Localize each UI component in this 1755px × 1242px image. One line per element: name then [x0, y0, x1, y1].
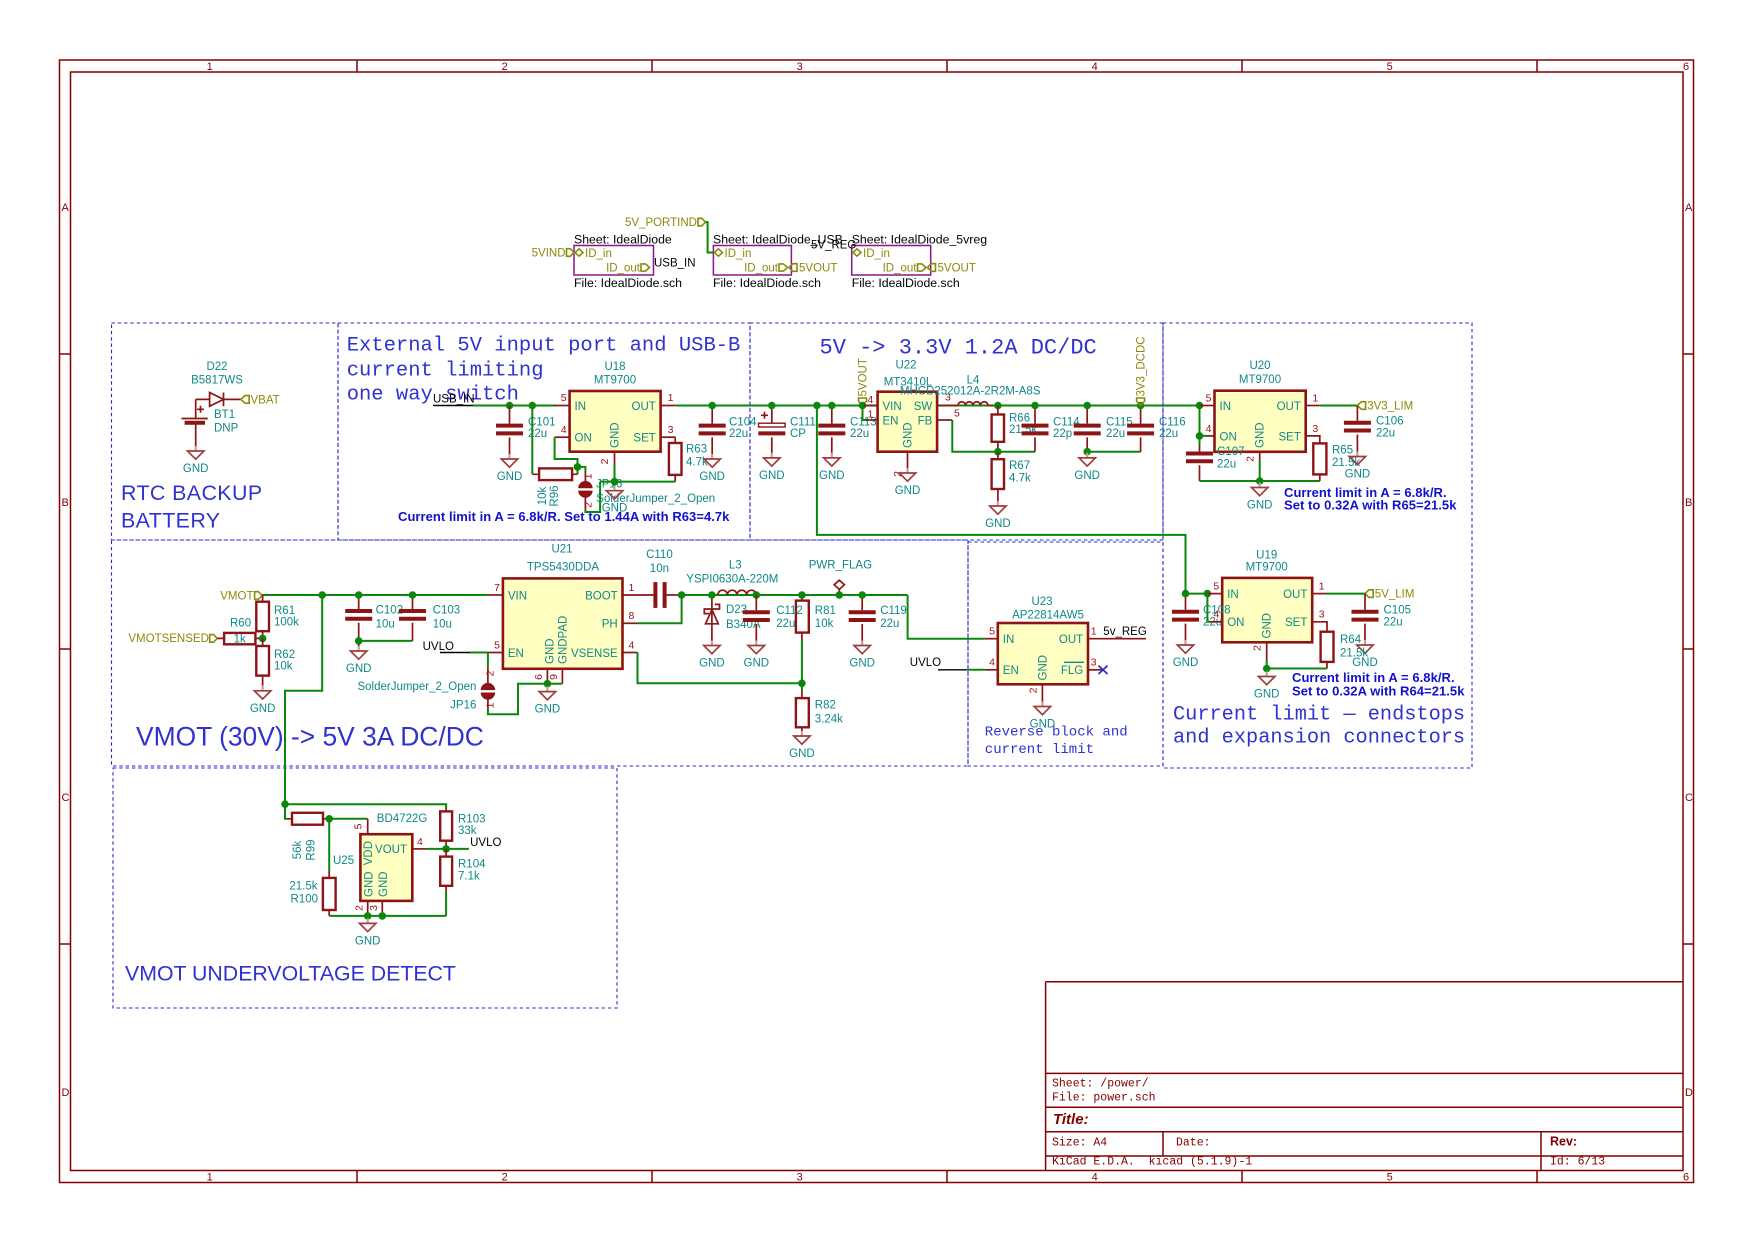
pin 6 GND (U21) [546, 669, 548, 684]
hier label 5VOUT (5vreg sheet) [928, 264, 936, 272]
svg-text:R96: R96 [549, 485, 561, 506]
svg-text:R61: R61 [274, 605, 295, 617]
resistor R81 [796, 601, 809, 633]
svg-text:BATTERY: BATTERY [121, 509, 220, 533]
svg-text:2: 2 [502, 1171, 508, 1183]
svg-text:D: D [1685, 1087, 1693, 1099]
svg-text:5: 5 [494, 639, 500, 651]
junction (U20 IN) [1196, 402, 1204, 410]
junction (VMOT to undervoltage) [318, 591, 326, 599]
svg-text:10u: 10u [433, 619, 452, 631]
svg-text:ID_in: ID_in [585, 248, 612, 260]
svg-text:VMOT: VMOT [220, 591, 253, 603]
wire junction to JP pin1 [578, 467, 586, 472]
svg-text:1: 1 [1091, 626, 1097, 638]
hier label 5VOUT vertical [859, 398, 867, 405]
pin 2 GND (U23) [1041, 684, 1043, 701]
svg-text:6: 6 [1683, 61, 1689, 73]
ground (C102) [346, 646, 372, 675]
IC U21 TPS5430DDA [503, 578, 623, 668]
svg-text:10u: 10u [376, 619, 395, 631]
svg-text:External 5V input port and USB: External 5V input port and USB-B [347, 334, 741, 357]
svg-text:DNP: DNP [214, 423, 239, 435]
svg-text:5VOUT: 5VOUT [857, 358, 869, 396]
pin 3 SET (U20) [1306, 436, 1320, 444]
frame column ticks bottom [357, 1171, 1537, 1183]
IC U22 MT3410L [878, 392, 938, 452]
junction (C116 top) [1137, 402, 1145, 410]
junction (C101) [506, 402, 514, 410]
svg-text:current limiting: current limiting [347, 360, 544, 383]
junction (U20 gnd) [1256, 477, 1264, 485]
svg-text:BOOT: BOOT [585, 590, 618, 602]
frame row ticks right [1683, 354, 1694, 944]
resistor R64 [1321, 632, 1334, 662]
title block lines [1046, 982, 1683, 1171]
wire VMOT rail [262, 594, 488, 596]
wire U25 gnd bus [329, 916, 446, 919]
svg-text:A: A [62, 202, 70, 214]
resistor R100 [323, 878, 336, 910]
svg-text:22u: 22u [1106, 428, 1125, 440]
svg-text:B: B [1685, 497, 1692, 509]
svg-text:4: 4 [561, 424, 567, 436]
capacitor C119 [861, 595, 863, 641]
sheet pin ID_in (IdealDiode_5vreg) [853, 249, 861, 256]
svg-text:Sheet: IdealDiode_5vreg: Sheet: IdealDiode_5vreg [852, 233, 988, 247]
svg-text:Set to 0.32A with R65=21.5k: Set to 0.32A with R65=21.5k [1284, 497, 1457, 512]
wire C103 to C102 gnd [359, 640, 413, 642]
pin 3 SET (U19) [1312, 622, 1327, 632]
svg-text:U19: U19 [1256, 550, 1277, 562]
svg-text:22u: 22u [1384, 617, 1403, 629]
svg-text:Date:: Date: [1176, 1136, 1211, 1149]
svg-text:USB_IN: USB_IN [433, 394, 475, 406]
svg-text:7.1k: 7.1k [458, 870, 480, 882]
wire R99 to R100 [328, 819, 330, 872]
svg-text:7: 7 [494, 582, 500, 594]
svg-text:D22: D22 [206, 361, 227, 373]
svg-text:SolderJumper_2_Open: SolderJumper_2_Open [357, 681, 476, 693]
svg-text:5: 5 [1213, 581, 1219, 593]
wire JP pin2 to gnd bus [585, 482, 600, 512]
svg-text:5: 5 [989, 626, 995, 638]
svg-text:R103: R103 [458, 813, 486, 825]
wire USB_IN rail [473, 405, 556, 407]
svg-text:U20: U20 [1249, 360, 1270, 372]
sheet IdealDiode_5vreg [852, 246, 931, 276]
svg-text:R65: R65 [1332, 445, 1353, 457]
svg-text:USB_IN: USB_IN [654, 258, 696, 270]
svg-text:U21: U21 [551, 543, 572, 555]
junction (C108 top) [1182, 590, 1190, 598]
pin 4 ON (U19) [1207, 594, 1210, 622]
svg-text:R81: R81 [815, 605, 836, 617]
note box VMOT DCDC [112, 540, 969, 766]
junction (R96 branch) [529, 402, 537, 410]
capacitor C101 [509, 406, 511, 455]
wire U20 gnd bus [1200, 460, 1320, 481]
pin 9 GNDPAD (U21) [561, 669, 563, 684]
svg-text:R64: R64 [1340, 634, 1362, 646]
junction (D23) [708, 591, 716, 599]
capacitor C107 [1199, 436, 1201, 446]
hier label VBAT [241, 396, 249, 404]
ground (C105) [1352, 640, 1378, 669]
ground (C115) [1074, 453, 1100, 482]
pin 1 BOOT (U21) [623, 594, 654, 596]
no connect X (U23 FLG) [1099, 666, 1108, 674]
svg-text:and expansion connectors: and expansion connectors [1173, 726, 1465, 749]
junction (C119 top) [858, 591, 866, 599]
svg-text:Sheet: /power/: Sheet: /power/ [1052, 1078, 1149, 1091]
svg-text:JP16: JP16 [450, 699, 476, 711]
resistor R96 [539, 468, 572, 480]
svg-text:EN: EN [1003, 665, 1019, 677]
svg-text:ID_in: ID_in [863, 248, 890, 260]
svg-text:22u: 22u [1217, 459, 1236, 471]
svg-text:22u: 22u [850, 428, 869, 440]
svg-text:1: 1 [207, 1171, 213, 1183]
svg-text:8: 8 [629, 610, 635, 622]
pin 2 GND (U19) [1266, 642, 1268, 660]
svg-text:10n: 10n [650, 563, 669, 575]
resistor R62 [256, 646, 269, 676]
pin 1 OUT (U18) [661, 405, 676, 407]
ground (R82) [789, 731, 815, 760]
svg-text:FB: FB [918, 415, 933, 427]
svg-text:5VIND: 5VIND [532, 248, 566, 260]
diode D23 [711, 595, 713, 641]
resistor R63 [669, 443, 682, 475]
svg-text:ON: ON [1227, 617, 1244, 629]
svg-text:CP: CP [790, 428, 806, 440]
svg-text:OUT: OUT [1283, 589, 1307, 601]
resistor R60 [224, 633, 255, 644]
note box reverse block [968, 542, 1163, 766]
svg-text:ID_out: ID_out [606, 263, 641, 275]
ground (U21) [546, 684, 548, 687]
svg-text:R63: R63 [686, 443, 707, 455]
svg-text:2: 2 [1028, 687, 1040, 693]
svg-text:File: IdealDiode.sch: File: IdealDiode.sch [852, 276, 960, 290]
svg-text:C112: C112 [776, 605, 803, 617]
svg-text:3: 3 [797, 61, 803, 73]
svg-text:GND: GND [1038, 655, 1050, 681]
svg-text:4: 4 [629, 639, 635, 651]
junction (C103 top) [409, 591, 417, 599]
wire to R103 [285, 804, 446, 808]
pin 5 IN (U23) [985, 638, 998, 640]
svg-text:YSPI0630A-220M: YSPI0630A-220M [686, 573, 778, 585]
svg-text:D: D [62, 1087, 70, 1099]
junction (C115 top) [1083, 402, 1091, 410]
junction (U25 pin2 gnd) [364, 912, 372, 920]
svg-text:C105: C105 [1384, 605, 1412, 617]
svg-text:IN: IN [1220, 401, 1232, 413]
svg-text:EN: EN [508, 648, 524, 660]
svg-text:2: 2 [354, 905, 366, 911]
pin 3 GND (U25) [381, 901, 383, 916]
svg-text:C116: C116 [1159, 416, 1186, 428]
svg-text:3V3_DCDC: 3V3_DCDC [1135, 336, 1147, 396]
wire U19 IN [1186, 593, 1208, 595]
hier label 3V3_LIM [1357, 402, 1365, 410]
svg-text:5: 5 [561, 392, 567, 404]
wire UVLO to U23 EN [967, 669, 984, 671]
svg-text:R66: R66 [1009, 413, 1030, 425]
capacitor C116 [1140, 406, 1142, 452]
junction (FB/R66/R67) [994, 448, 1002, 456]
pin 2 GND (U18) [614, 452, 616, 464]
wire EN bridge (U22) [863, 406, 867, 421]
svg-text:IN: IN [575, 401, 587, 413]
svg-text:4: 4 [417, 836, 423, 848]
wire OUT rail to U20 [676, 405, 1200, 407]
svg-text:5VOUT: 5VOUT [799, 263, 837, 275]
junction (U20 ON) [1196, 432, 1204, 440]
svg-text:R99: R99 [306, 839, 318, 860]
svg-text:1k: 1k [234, 633, 246, 645]
svg-text:C111: C111 [790, 416, 816, 428]
svg-text:4: 4 [989, 657, 995, 669]
svg-text:Title:: Title: [1053, 1111, 1089, 1128]
svg-text:U23: U23 [1031, 596, 1052, 608]
svg-text:VOUT: VOUT [375, 844, 407, 856]
junction (U19 IN/ON) [1204, 590, 1212, 598]
junction (C102 top) [355, 591, 363, 599]
svg-text:BD4722G: BD4722G [377, 813, 428, 825]
svg-text:6: 6 [1683, 1171, 1689, 1183]
svg-text:current limit: current limit [985, 742, 1094, 758]
pin 3 SW (U22) [937, 405, 958, 407]
wire U20 OUT [1320, 405, 1358, 407]
junction (U19 gnd) [1263, 665, 1271, 673]
svg-text:Reverse block and: Reverse block and [985, 724, 1128, 740]
wire FB net [952, 420, 1035, 452]
svg-text:R82: R82 [815, 700, 836, 712]
svg-text:Current limit — endstops: Current limit — endstops [1173, 704, 1465, 727]
svg-text:10k: 10k [537, 486, 549, 505]
junction (VSENSE/R81/R82) [798, 680, 806, 688]
svg-text:1: 1 [629, 582, 635, 594]
svg-text:9: 9 [548, 674, 560, 680]
svg-text:4: 4 [1213, 609, 1219, 621]
svg-text:3: 3 [1091, 657, 1097, 669]
pin 2 GND (U20) [1259, 452, 1261, 460]
svg-text:3: 3 [797, 1171, 803, 1183]
svg-text:3: 3 [668, 424, 674, 436]
svg-text:C: C [1685, 792, 1693, 804]
svg-text:ID_in: ID_in [725, 248, 752, 260]
svg-text:BT1: BT1 [214, 409, 235, 421]
resistor R104 [440, 857, 452, 886]
svg-text:21.5k: 21.5k [289, 880, 317, 892]
wire U19 gnd [1267, 660, 1327, 672]
ground (U18 pin2) [602, 486, 628, 515]
svg-text:MT9700: MT9700 [1239, 374, 1281, 386]
svg-text:C107: C107 [1217, 446, 1245, 458]
svg-text:OUT: OUT [1277, 401, 1301, 413]
svg-text:GND: GND [903, 422, 915, 448]
svg-text:5v_REG: 5v_REG [1103, 626, 1147, 638]
sheet IdealDiode_USB [713, 246, 791, 276]
ground (R67) [985, 501, 1011, 530]
svg-text:2: 2 [1245, 456, 1257, 462]
svg-text:5V -> 3.3V 1.2A DC/DC: 5V -> 3.3V 1.2A DC/DC [820, 335, 1097, 360]
svg-text:UVLO: UVLO [423, 641, 454, 653]
svg-text:21.5k: 21.5k [1340, 648, 1368, 660]
svg-text:56k: 56k [292, 840, 304, 859]
svg-text:R104: R104 [458, 859, 486, 871]
junction (5VOUT/EN) [859, 402, 867, 410]
junction (undervoltage entry) [281, 800, 289, 808]
svg-text:MT9700: MT9700 [594, 375, 636, 387]
wire C115/C116 gnd bus [1087, 451, 1140, 453]
svg-text:2: 2 [599, 458, 611, 464]
svg-text:ON: ON [1220, 431, 1237, 443]
wire UVLO to EN [470, 652, 488, 654]
svg-text:4: 4 [1092, 61, 1098, 73]
ground (C108) [1173, 640, 1199, 669]
junction (U18 gnd bus) [611, 478, 619, 486]
capacitor C108 [1185, 594, 1187, 640]
svg-text:Sheet: IdealDiode: Sheet: IdealDiode [574, 233, 672, 247]
junction (C102 bottom) [355, 637, 363, 645]
ground (U23) [1030, 702, 1056, 731]
svg-text:3: 3 [1312, 423, 1318, 435]
junction (C113) [828, 402, 836, 410]
wire VOUT to UVLO [427, 848, 469, 850]
svg-text:MHCD252012A-2R2M-A8S: MHCD252012A-2R2M-A8S [900, 386, 1041, 398]
svg-text:C: C [62, 792, 70, 804]
svg-text:Size: A4: Size: A4 [1052, 1136, 1107, 1149]
svg-text:C119: C119 [880, 605, 907, 617]
svg-text:C106: C106 [1376, 416, 1404, 428]
note box 5V to 3.3V [750, 323, 1163, 540]
svg-text:1: 1 [583, 473, 595, 479]
ground (U20) [1247, 483, 1273, 512]
note box undervoltage [113, 768, 617, 1008]
ground (C104) [699, 454, 725, 483]
svg-text:IN: IN [1003, 634, 1015, 646]
sheet IdealDiode [574, 246, 654, 276]
wire VSENSE net [638, 653, 802, 684]
svg-text:UVLO: UVLO [910, 657, 941, 669]
capacitor C103 [412, 595, 414, 641]
junction (C114 top) [1031, 402, 1039, 410]
junction (C115 bottom) [1083, 448, 1091, 456]
svg-text:VMOTSENSED: VMOTSENSED [128, 633, 209, 645]
svg-text:File: IdealDiode.sch: File: IdealDiode.sch [574, 276, 682, 290]
wire R99 to U25 VDD [329, 818, 368, 820]
svg-text:EN: EN [883, 415, 899, 427]
svg-text:FLG: FLG [1061, 665, 1083, 677]
pin 5 IN (U19) [1207, 593, 1222, 595]
ground (D23) [699, 641, 725, 670]
junction (C111) [768, 402, 776, 410]
pin 1 EN (U22) [867, 419, 878, 421]
capacitor C110 [654, 582, 665, 608]
svg-text:PWR_FLAG: PWR_FLAG [809, 559, 872, 571]
wire PH to BOOT cap [638, 595, 682, 623]
svg-text:22u: 22u [729, 428, 748, 440]
frame row ticks left [60, 354, 71, 944]
hier label 5V_LIM [1365, 590, 1373, 598]
note box current limit right [1163, 323, 1472, 768]
wire R81 to VSENSE net [801, 640, 803, 683]
junction (L3 out / C112) [753, 591, 761, 599]
svg-text:4: 4 [1092, 1171, 1098, 1183]
pin 4 ON (U20) [1200, 406, 1208, 436]
pin 5 FB (U22) [937, 419, 952, 421]
svg-text:Set to 0.32A with R64=21.5k: Set to 0.32A with R64=21.5k [1292, 683, 1465, 698]
capacitor C102 [358, 595, 360, 646]
resistor R67 [992, 459, 1004, 489]
svg-text:GND: GND [1262, 613, 1274, 639]
svg-text:TPS5430DDA: TPS5430DDA [527, 561, 600, 573]
svg-text:VSENSE: VSENSE [571, 648, 618, 660]
resistor R66 [992, 415, 1004, 442]
wire U19 OUT [1326, 593, 1365, 595]
hier label 5VOUT (USB sheet) [789, 264, 797, 272]
svg-text:File: IdealDiode.sch: File: IdealDiode.sch [713, 276, 821, 290]
svg-text:File: power.sch: File: power.sch [1052, 1091, 1156, 1104]
ground (C106) [1345, 452, 1371, 481]
svg-text:22p: 22p [1053, 428, 1072, 440]
pin 3 FLG (U23) [1088, 669, 1102, 671]
svg-text:10k: 10k [815, 618, 834, 630]
pin 7 VIN (U21) [488, 594, 503, 596]
svg-text:B: B [62, 497, 69, 509]
svg-text:5VOUT: 5VOUT [938, 263, 976, 275]
wire gnd bus U18 [600, 464, 675, 486]
svg-text:L3: L3 [729, 559, 742, 571]
svg-text:U25: U25 [333, 855, 354, 867]
capacitor C113 [831, 406, 833, 453]
pin 4 VIN (U22) [864, 405, 878, 407]
junction (BOOT/PH) [678, 591, 686, 599]
svg-text:5V_LIM: 5V_LIM [1375, 589, 1415, 601]
svg-text:10k: 10k [274, 661, 293, 673]
svg-text:GND: GND [364, 871, 376, 897]
svg-text:Rev:: Rev: [1550, 1134, 1577, 1148]
svg-text:Id: 6/13: Id: 6/13 [1550, 1156, 1605, 1169]
svg-text:UVLO: UVLO [470, 837, 501, 849]
junction (UVLO divider) [442, 845, 450, 853]
pin 3 SET (U18) [661, 436, 676, 438]
svg-text:3: 3 [368, 905, 380, 911]
svg-text:3.24k: 3.24k [815, 714, 843, 726]
svg-text:MT9700: MT9700 [1246, 562, 1288, 574]
svg-text:U22: U22 [895, 360, 916, 372]
svg-text:RTC BACKUP: RTC BACKUP [121, 481, 262, 505]
junction (PWR_FLAG) [836, 591, 844, 599]
svg-text:SW: SW [914, 401, 933, 413]
svg-text:4.7k: 4.7k [1009, 473, 1031, 485]
svg-text:U18: U18 [604, 361, 625, 373]
wire 5V_PORTIND to ID_in [706, 222, 714, 252]
svg-text:1: 1 [668, 392, 674, 404]
capacitor C111 polarized [771, 406, 773, 453]
resistor R61 [256, 602, 269, 632]
wire ON to R96/JP [555, 437, 578, 474]
frame column ticks top [357, 60, 1537, 72]
resistor R65 [1313, 443, 1326, 474]
hier label 3V3_DCDC vertical [1137, 398, 1145, 405]
pin 2 GND (U25) [367, 901, 369, 916]
svg-text:AP22814AW5: AP22814AW5 [1012, 610, 1084, 622]
